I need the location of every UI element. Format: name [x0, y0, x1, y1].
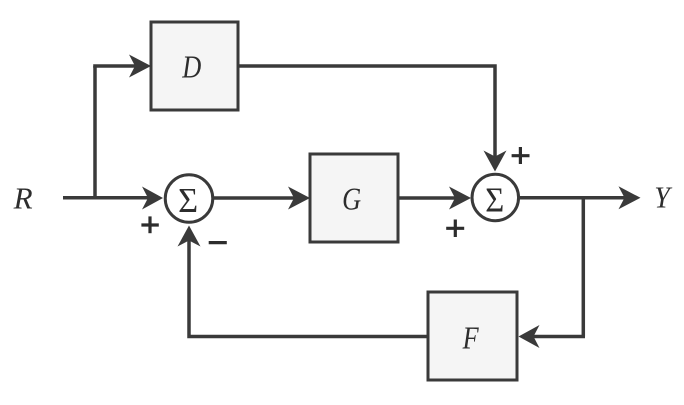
svg-text:Σ: Σ — [178, 181, 198, 220]
node branch on R wire — [93, 66, 97, 199]
block D — [151, 22, 238, 110]
svg-text:Y: Y — [654, 180, 672, 215]
wire S1 to block G — [214, 196, 298, 200]
wire R input to summing junction S1 — [63, 196, 152, 200]
arrowhead into G — [288, 187, 310, 210]
plus sign at S1 left — [141, 216, 158, 233]
block F — [428, 292, 517, 380]
wire G to S2 — [398, 196, 460, 200]
node branch on output wire — [582, 197, 586, 337]
arrowhead into D — [129, 55, 151, 78]
minus sign at S1 bottom — [209, 241, 227, 244]
svg-text:Σ: Σ — [485, 181, 504, 220]
plus sign at S2 top — [512, 147, 530, 164]
svg-text:D: D — [181, 48, 201, 84]
wire branch down to block F — [528, 335, 585, 339]
arrowhead at Y — [619, 186, 641, 209]
arrowhead into F right — [519, 325, 540, 348]
wire D output to summing junction S2 — [238, 66, 495, 160]
svg-text:G: G — [342, 181, 361, 217]
plus sign at S2 left — [446, 220, 464, 238]
svg-text:R: R — [13, 180, 33, 215]
arrowhead into S2 top — [484, 151, 507, 172]
summing junction S2 — [472, 174, 519, 221]
wire S2 to output Y — [518, 196, 629, 200]
summing junction S1 — [165, 175, 213, 223]
block G — [310, 154, 398, 242]
arrowhead into S1 — [142, 187, 163, 210]
svg-text:F: F — [462, 320, 479, 356]
arrowhead into S1 bottom — [178, 226, 201, 247]
wire branch to block D — [93, 64, 140, 68]
wire F output back to S1 — [189, 236, 428, 337]
arrowhead into S2 left — [449, 187, 471, 210]
